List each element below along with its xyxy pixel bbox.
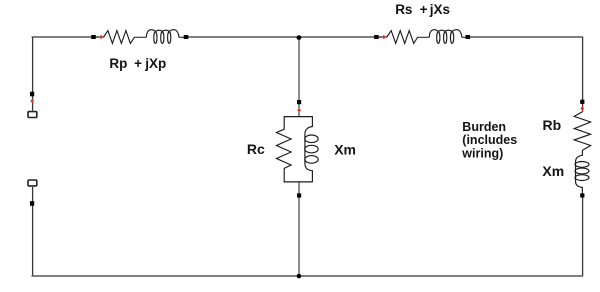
label Rs + jXs [395,2,450,17]
wire lead between Rp resistor and Lp coil [135,36,147,38]
label Rb [543,117,562,133]
pin at Rs input [374,35,379,39]
wire lead Ls coil to pin [462,36,466,38]
resistor Rc (vertical zigzag in magnetizing branch) [276,117,291,182]
junction dot bottom [297,274,302,279]
svg-text:wiring): wiring) [461,147,503,161]
svg-text:Rp+jXp: Rp+jXp [109,56,166,71]
red marker top of magnetizing branch [297,108,301,113]
wire top rail segment 4 (Rs branch to right corner) [470,36,583,38]
red marker at Rp input [99,35,103,40]
terminal box 1 (primary input top) [28,112,37,118]
pin at Ls output [466,35,471,39]
label Burden (includes wiring) [461,120,517,161]
terminal box 2 (primary input bottom) [28,180,37,186]
pin top of burden branch [580,100,584,104]
svg-text:Xm: Xm [334,141,356,157]
label Xm (magnetizing) [334,141,356,157]
label Rp + jXp [109,56,166,71]
wire left vertical lower (terminal 2 to bottom rail) [32,187,34,277]
inductor Ls (jXs coil, top right branch) [429,30,462,44]
svg-text:Rb: Rb [543,117,562,133]
wire top rail segment 1 (left corner to primary pin) [32,36,92,38]
red marker above terminal 1 [30,99,34,104]
wire right vertical lower (burden branch to bottom rail) [582,198,584,277]
pin above terminal 1 [30,92,34,97]
wire middle vertical lower (magnetizing branch to bottom rail) [298,182,300,276]
parallel box bottom edge [284,181,313,183]
wire lead Lp coil to pin [179,36,184,38]
pin bottom of magnetizing branch [297,193,301,197]
red marker top of burden branch [580,106,584,111]
resistor Rp (zigzag, top left branch) [96,31,135,44]
pin at Lp output [184,35,189,39]
svg-text:Rc: Rc [247,141,265,157]
wire left vertical upper (to terminal 1) [32,37,34,111]
junction dot top (node between Rp, Rs and magnetizing branch) [297,35,302,40]
pin top of magnetizing branch [297,100,301,104]
wire top rail segment 2 (Rp branch to middle junction) [188,36,299,38]
wire top rail segment 3 (middle junction to Rs pin) [299,36,375,38]
wire right vertical upper (corner to Rb pin) [582,37,584,112]
inductor Xm (magnetizing coil, vertical) [305,117,318,182]
inductor Lp (jXp coil, top left branch) [146,30,179,44]
svg-text:Xm: Xm [542,163,564,179]
wire middle vertical upper (junction to magnetizing branch) [298,37,300,116]
svg-text:Burden: Burden [462,120,506,134]
pin bottom of burden branch [580,193,584,197]
svg-text:Rs+jXs: Rs+jXs [395,2,450,17]
pin at Rp input [91,35,96,39]
red marker at Rs input [382,35,386,40]
wire lead between Rs resistor and Ls coil [418,36,430,38]
label Rc [247,141,265,157]
wire bottom rail [32,275,584,277]
pin below terminal 2 [30,201,34,206]
resistor Rs (zigzag, top right branch) [379,31,418,44]
resistor Rb (burden resistor, vertical zigzag right) [574,112,590,150]
label Xm (burden reactance) [542,163,564,179]
parallel box top edge (Rc and Xm magnetizing branch) [284,116,313,118]
inductor Xm burden (vertical coil right) [575,150,589,193]
svg-text:(includes: (includes [462,133,517,147]
